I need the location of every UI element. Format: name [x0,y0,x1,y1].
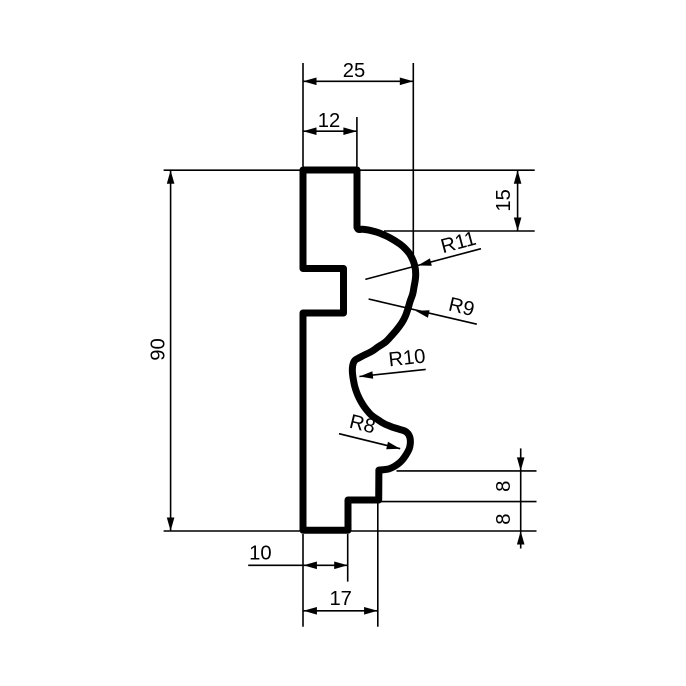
dimension 10 right arrow [334,562,348,570]
extension line between the two dim 8 [380,501,537,503]
svg-text:25: 25 [343,60,365,82]
extension line top of first dim 8 [397,470,537,472]
R11 arrowhead [418,258,432,265]
extension line bottom edge [164,530,537,532]
radius leader R8 [339,434,400,449]
dimension 17 line [303,610,377,612]
dimension 12 line [303,130,357,132]
dimension 17 right arrow [364,607,378,615]
R9 arrowhead [416,310,430,317]
dimension 15 bottom arrow [514,218,522,232]
dimension 25 line [303,80,413,82]
extension line right of dim 10 [347,534,349,582]
dimension 10 left arrow [303,562,317,570]
dimension 15 top arrow [514,170,522,184]
extension line top edge [164,169,535,171]
svg-text:10: 10 [249,543,271,565]
extension line at arc top for dim 15 [384,230,535,232]
dimension 17 left arrow [303,607,317,615]
svg-text:17: 17 [329,588,351,610]
radius leader R11 [365,249,481,280]
svg-text:90: 90 [147,338,169,360]
dim 8 top outside arrow [517,457,525,471]
svg-text:15: 15 [493,189,515,211]
dimension 12 right arrow [343,127,357,135]
svg-text:8: 8 [493,513,515,524]
dimension 8/8 line [520,448,522,548]
dimension 25 left arrow [303,78,317,86]
radius leader R10 [359,369,425,376]
svg-text:R10: R10 [387,345,426,371]
dimension 90 top arrow [167,170,175,184]
extension line left of dims 25 and 12 [302,63,304,167]
R10 arrowhead [359,371,373,379]
extension line right of dim 12 [356,117,358,167]
dimension 12 left arrow [303,127,317,135]
profile outline of moulding cross-section [303,170,416,530]
dimension 90 line [170,170,172,531]
svg-text:8: 8 [493,481,515,492]
radius leader R9 [369,299,477,324]
svg-text:12: 12 [318,110,340,132]
dimension 90 bottom arrow [167,518,175,532]
extension line right of dim 25 [412,63,414,257]
extension line right of dim 17 [377,503,379,627]
dim 8 bottom outside arrow [517,531,525,545]
R8 arrowhead [386,442,400,449]
extension line below profile left [302,534,304,627]
dimension 25 right arrow [400,78,414,86]
dimension 15 line [517,170,519,231]
dimension 10 line with left tail [248,564,348,566]
